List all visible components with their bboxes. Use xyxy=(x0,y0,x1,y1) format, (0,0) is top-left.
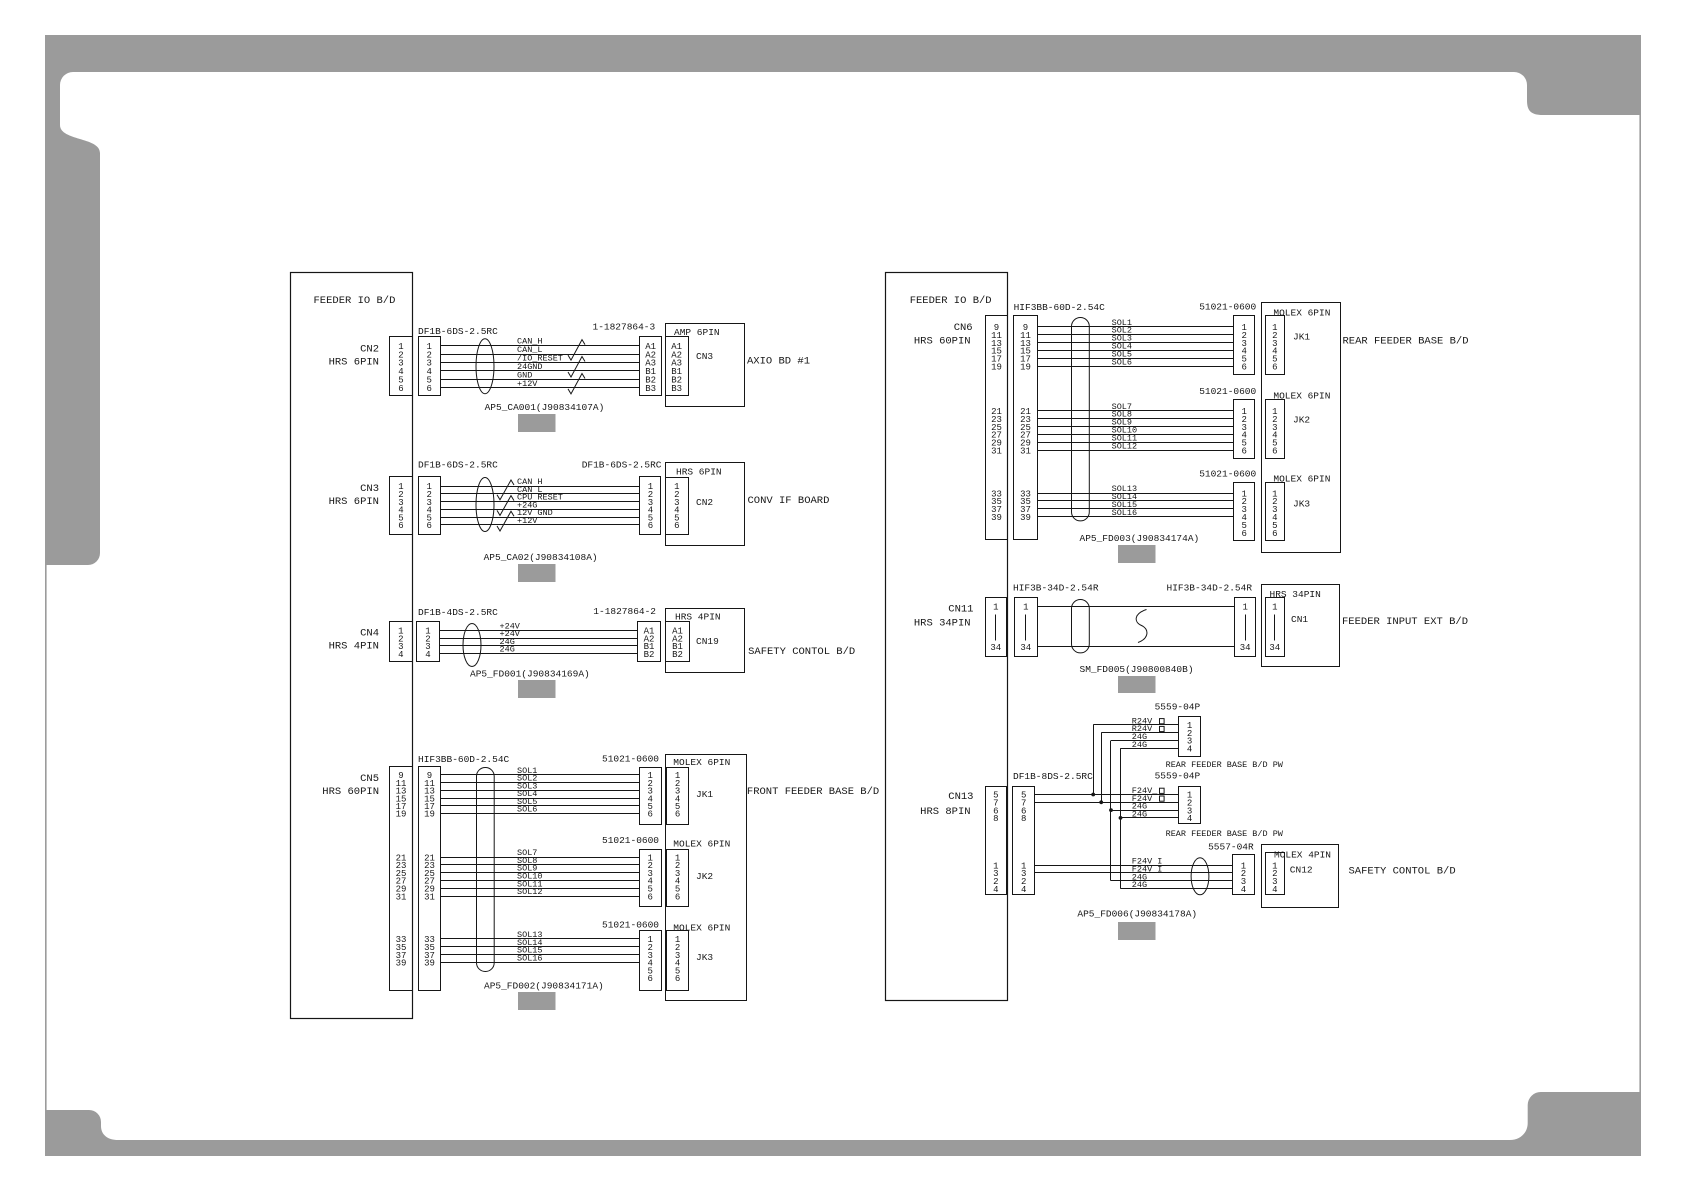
connector CN11 pin box xyxy=(986,598,1007,657)
svg-text:CN6: CN6 xyxy=(954,322,973,334)
connector 1-1827864-2 pin box xyxy=(638,622,661,662)
svg-text:MOLEX 6PIN: MOLEX 6PIN xyxy=(673,839,730,850)
connector pin box right (CN3 cable) xyxy=(640,477,661,535)
svg-text:HRS 34PIN: HRS 34PIN xyxy=(914,617,971,629)
wire 24G 4 (top) xyxy=(1121,748,1179,750)
svg-text:39: 39 xyxy=(991,513,1002,523)
svg-text:HRS 6PIN: HRS 6PIN xyxy=(676,467,722,478)
svg-text:SOL16: SOL16 xyxy=(517,953,543,963)
svg-text:6: 6 xyxy=(426,384,431,394)
connector DF1B-4DS-2.5RC pin box xyxy=(417,622,440,662)
svg-text:HRS 6PIN: HRS 6PIN xyxy=(329,496,379,508)
twisted pair mark GND/+12V xyxy=(568,374,585,394)
frame top band xyxy=(45,35,1641,72)
svg-text:B2: B2 xyxy=(644,650,655,660)
svg-text:DF1B-6DS-2.5RC: DF1B-6DS-2.5RC xyxy=(582,460,662,471)
svg-text:6: 6 xyxy=(647,892,652,902)
svg-text:31: 31 xyxy=(396,892,407,902)
connector CN1 pin box xyxy=(1266,598,1285,657)
svg-text:6: 6 xyxy=(647,810,652,820)
svg-text:AP5_FD006(J90834178A): AP5_FD006(J90834178A) xyxy=(1077,909,1197,920)
svg-text:6: 6 xyxy=(675,810,680,820)
svg-text:HIF3B-34D-2.54R: HIF3B-34D-2.54R xyxy=(1167,583,1253,594)
svg-text:REAR FEEDER BASE B/D: REAR FEEDER BASE B/D xyxy=(1343,336,1469,348)
connector 5559-04P middle pin box xyxy=(1179,787,1201,825)
svg-text:51021-0600: 51021-0600 xyxy=(1199,386,1256,397)
MOLEX 6PIN connector box JK1/JK2/JK3 (right) xyxy=(1262,303,1341,553)
HRS 34PIN connector box CN1 xyxy=(1262,585,1340,667)
twisted pair mark CAN xyxy=(568,340,585,361)
svg-text:CN19: CN19 xyxy=(696,636,719,647)
svg-text:B3: B3 xyxy=(671,384,682,394)
svg-text:6: 6 xyxy=(674,521,679,531)
svg-text:HIF3BB-60D-2.54C: HIF3BB-60D-2.54C xyxy=(418,754,510,765)
svg-text:JK2: JK2 xyxy=(696,871,713,882)
connector CN3 pin box xyxy=(390,477,413,535)
svg-text:51021-0600: 51021-0600 xyxy=(1199,302,1256,313)
gray stamp AP5_CA02 xyxy=(518,564,556,582)
cable bundle ellipse AP5_FD001 xyxy=(463,624,481,667)
svg-text:6: 6 xyxy=(675,974,680,984)
wire CN11 pin34 xyxy=(1037,646,1234,648)
frame top-right tab xyxy=(1514,72,1641,115)
connector HIF3BB-60D pin box (right) xyxy=(1014,316,1038,540)
svg-text:HRS 34PIN: HRS 34PIN xyxy=(1270,589,1321,600)
frame bottom band xyxy=(45,1140,1641,1156)
svg-text:39: 39 xyxy=(1020,513,1031,523)
svg-text:DF1B-6DS-2.5RC: DF1B-6DS-2.5RC xyxy=(418,460,498,471)
AMP 6PIN connector box CN3 xyxy=(666,324,745,407)
svg-text:6: 6 xyxy=(648,521,653,531)
svg-text:+12V: +12V xyxy=(517,379,538,389)
svg-text:SOL6: SOL6 xyxy=(517,805,537,815)
svg-text:CN4: CN4 xyxy=(360,628,379,640)
svg-text:1: 1 xyxy=(1023,602,1028,612)
svg-text:JK1: JK1 xyxy=(696,789,713,800)
svg-text:HRS 6PIN: HRS 6PIN xyxy=(329,356,379,368)
wire F24V_ pin5 to middle connector xyxy=(1034,794,1178,796)
svg-text:39: 39 xyxy=(396,959,407,969)
cable bundle capsule AP5_FD002 xyxy=(477,768,495,972)
twisted pair mark 12V GND/+12V xyxy=(497,511,514,531)
svg-text:4: 4 xyxy=(1187,745,1192,755)
svg-text:AXIO BD #1: AXIO BD #1 xyxy=(747,356,810,368)
svg-text:5559-04P: 5559-04P xyxy=(1155,702,1201,713)
svg-text:MOLEX 6PIN: MOLEX 6PIN xyxy=(673,923,730,934)
gray stamp SM_FD005 xyxy=(1118,676,1156,693)
svg-text:MOLEX 6PIN: MOLEX 6PIN xyxy=(1273,308,1330,319)
svg-text:MOLEX 6PIN: MOLEX 6PIN xyxy=(673,757,730,768)
svg-text:HIF3BB-60D-2.54C: HIF3BB-60D-2.54C xyxy=(1014,302,1106,313)
cable bundle capsule AP5_FD003 xyxy=(1072,318,1090,521)
MOLEX 4PIN connector box CN12 xyxy=(1262,845,1339,908)
cable bundle ellipse AP5_CA001 xyxy=(476,339,494,394)
svg-text:CN1: CN1 xyxy=(1291,614,1308,625)
svg-text:SOL12: SOL12 xyxy=(1112,441,1138,451)
gray stamp AP5_FD006 xyxy=(1118,922,1156,940)
svg-text:4: 4 xyxy=(993,885,998,895)
svg-text:1: 1 xyxy=(1242,602,1247,612)
gray stamp AP5_FD001 xyxy=(518,680,556,698)
svg-text:JK3: JK3 xyxy=(1293,499,1310,510)
svg-text:6: 6 xyxy=(1272,529,1277,539)
connector CN4 pin box xyxy=(390,622,413,662)
wire 24G middle 3 xyxy=(1111,810,1179,812)
connector 51021 JK2 pin box (left) xyxy=(640,850,662,907)
svg-text:FRONT FEEDER BASE B/D: FRONT FEEDER BASE B/D xyxy=(747,786,879,798)
svg-text:FEEDER INPUT EXT B/D: FEEDER INPUT EXT B/D xyxy=(1342,616,1468,628)
svg-text:FEEDER IO B/D: FEEDER IO B/D xyxy=(314,295,396,307)
junction dot F24V/R24V 1 xyxy=(1091,793,1095,797)
connector 5559-04P top pin box xyxy=(1179,717,1201,757)
wire 24G bottom 4 xyxy=(1121,888,1233,890)
twisted pair mark CPU RESET/+24G xyxy=(497,496,514,516)
svg-text:4: 4 xyxy=(1021,885,1026,895)
svg-text:19: 19 xyxy=(1020,363,1031,373)
wire F24V_ pin7 to middle connector xyxy=(1034,802,1178,804)
bus vertical 24G 4 xyxy=(1120,748,1122,888)
svg-text:B2: B2 xyxy=(672,650,683,660)
svg-text:JK2: JK2 xyxy=(1293,415,1310,426)
svg-text:34: 34 xyxy=(1269,643,1280,653)
svg-text:HRS 60PIN: HRS 60PIN xyxy=(914,336,971,348)
svg-text:HIF3B-34D-2.54R: HIF3B-34D-2.54R xyxy=(1013,583,1099,594)
wires CN3 cable xyxy=(440,487,640,525)
svg-text:SAFETY CONTOL B/D: SAFETY CONTOL B/D xyxy=(748,646,855,658)
gray stamp AP5_FD002 xyxy=(518,992,556,1010)
svg-text:1-1827864-3: 1-1827864-3 xyxy=(593,322,656,333)
svg-text:5557-04R: 5557-04R xyxy=(1208,842,1254,853)
wire F24V_I pin3 bottom xyxy=(1034,872,1232,874)
connector JK3 pin box (left) xyxy=(667,931,689,991)
svg-text:B3: B3 xyxy=(645,384,656,394)
bus vertical 24G 3 xyxy=(1110,741,1112,881)
connector CN6 pin box xyxy=(986,316,1008,540)
svg-text:6: 6 xyxy=(1241,363,1246,373)
svg-text:SM_FD005(J90800840B): SM_FD005(J90800840B) xyxy=(1080,664,1194,675)
twisted pair mark IO_RESET/24GND xyxy=(568,357,585,378)
connector JK2 pin box (left) xyxy=(667,850,689,907)
gray stamp AP5_FD003 xyxy=(1118,545,1156,563)
left FEEDER IO B/D board box xyxy=(291,273,413,1019)
connector 51021 JK3 pin box (left) xyxy=(640,931,662,991)
svg-text:34: 34 xyxy=(1240,643,1251,653)
connector HIF3B-34D pin box (right) xyxy=(1235,598,1256,657)
svg-text:51021-0600: 51021-0600 xyxy=(602,754,659,765)
svg-text:CN2: CN2 xyxy=(360,344,379,356)
svg-text:6: 6 xyxy=(426,521,431,531)
svg-text:HRS 4PIN: HRS 4PIN xyxy=(675,612,721,623)
svg-text:CONV IF BOARD: CONV IF BOARD xyxy=(748,495,830,507)
svg-text:HRS 8PIN: HRS 8PIN xyxy=(920,806,970,818)
svg-text:JK3: JK3 xyxy=(696,952,713,963)
svg-text:19: 19 xyxy=(424,810,435,820)
svg-text:AP5_CA001(J90834107A): AP5_CA001(J90834107A) xyxy=(485,402,605,413)
svg-text:CN3: CN3 xyxy=(696,351,713,362)
connector JK2 pin box (right) xyxy=(1266,400,1285,459)
svg-text:+12V: +12V xyxy=(517,516,538,526)
svg-text:CN12: CN12 xyxy=(1290,865,1313,876)
junction dot F24V/R24V 2 xyxy=(1099,800,1103,804)
frame left tab xyxy=(45,72,100,565)
svg-text:19: 19 xyxy=(396,810,407,820)
frame right thin line xyxy=(1639,115,1641,1093)
svg-text:CN11: CN11 xyxy=(948,604,973,616)
svg-text:DF1B-6DS-2.5RC: DF1B-6DS-2.5RC xyxy=(418,326,498,337)
MOLEX 6PIN connector box JK1/JK2/JK3 (left) xyxy=(666,755,747,1001)
svg-text:6: 6 xyxy=(1241,447,1246,457)
wire 24G 3 (top) xyxy=(1111,740,1179,742)
svg-text:31: 31 xyxy=(991,447,1002,457)
cable bundle ellipse AP5_FD006 xyxy=(1191,858,1209,895)
svg-text:4: 4 xyxy=(1241,885,1246,895)
svg-text:SOL6: SOL6 xyxy=(1112,357,1132,367)
connector DF1B-6DS-2.5RC pin box xyxy=(419,337,441,396)
wire R24V_ 1 (top) xyxy=(1093,724,1179,726)
svg-text:5559-04P: 5559-04P xyxy=(1155,771,1201,782)
svg-text:4: 4 xyxy=(398,650,403,660)
junction dot 24G 3 xyxy=(1109,808,1113,812)
connector DF1B-6DS-2.5RC pin box 2 xyxy=(419,477,441,535)
svg-text:24G: 24G xyxy=(1132,880,1147,890)
svg-text:JK1: JK1 xyxy=(1293,332,1310,343)
svg-text:6: 6 xyxy=(675,892,680,902)
connector 51021 JK1 pin box (left) xyxy=(640,768,662,825)
svg-text:1: 1 xyxy=(1272,602,1277,612)
wire 24G bottom 3 xyxy=(1111,880,1233,882)
svg-text:DF1B-4DS-2.5RC: DF1B-4DS-2.5RC xyxy=(418,607,498,618)
svg-text:6: 6 xyxy=(1272,447,1277,457)
connector CN2 (CONV IF) pin box xyxy=(666,478,689,535)
svg-text:REAR FEEDER BASE B/D PW: REAR FEEDER BASE B/D PW xyxy=(1166,829,1284,839)
wire 24G middle 4 xyxy=(1121,817,1179,819)
connector HIF3BB-60D pin box (left) xyxy=(419,767,441,991)
connector DF1B-8DS pin box xyxy=(1013,787,1035,895)
svg-text:34: 34 xyxy=(990,643,1001,653)
svg-text:CN13: CN13 xyxy=(948,791,973,803)
wire F24V_I pin1 bottom xyxy=(1034,865,1232,867)
svg-text:FEEDER IO B/D: FEEDER IO B/D xyxy=(910,295,992,307)
svg-text:6: 6 xyxy=(1241,529,1246,539)
svg-text:REAR FEEDER BASE B/D PW: REAR FEEDER BASE B/D PW xyxy=(1166,760,1284,770)
connector CN2 pin box xyxy=(390,337,413,396)
svg-text:MOLEX 4PIN: MOLEX 4PIN xyxy=(1274,850,1331,861)
svg-text:24G: 24G xyxy=(1132,740,1147,750)
connector CN19 pin box xyxy=(666,622,690,662)
cable break squiggle SM_FD005 xyxy=(1136,610,1147,643)
connector 51021 JK3 pin box (right) xyxy=(1234,483,1255,541)
HRS 4PIN connector box CN19 xyxy=(666,609,745,673)
svg-text:1: 1 xyxy=(993,602,998,612)
svg-text:19: 19 xyxy=(991,363,1002,373)
connector 51021 JK1 pin box (right) xyxy=(1234,316,1255,375)
svg-text:CN5: CN5 xyxy=(360,773,379,785)
connector CN5 pin box xyxy=(390,767,413,991)
svg-text:34: 34 xyxy=(1020,643,1031,653)
connector JK3 pin box (right) xyxy=(1266,483,1285,541)
connector CN13 pin box xyxy=(986,787,1007,895)
svg-text:6: 6 xyxy=(398,384,403,394)
svg-text:6: 6 xyxy=(1272,363,1277,373)
svg-text:6: 6 xyxy=(647,974,652,984)
connector JK1 pin box (right) xyxy=(1266,316,1285,375)
svg-text:AP5_FD003(J90834174A): AP5_FD003(J90834174A) xyxy=(1080,533,1200,544)
connector 51021 JK2 pin box (right) xyxy=(1234,400,1255,459)
svg-text:51021-0600: 51021-0600 xyxy=(602,835,659,846)
gray stamp AP5_CA001 xyxy=(518,414,556,432)
svg-text:31: 31 xyxy=(1020,447,1031,457)
svg-text:AP5_CA02(J90834108A): AP5_CA02(J90834108A) xyxy=(484,552,598,563)
svg-text:CN3: CN3 xyxy=(360,483,379,495)
svg-text:31: 31 xyxy=(424,892,435,902)
connector 5557-04R pin box xyxy=(1233,855,1255,895)
svg-text:HRS 4PIN: HRS 4PIN xyxy=(329,641,379,653)
svg-text:24G: 24G xyxy=(500,645,515,655)
svg-text:8: 8 xyxy=(993,814,998,824)
svg-text:4: 4 xyxy=(1187,814,1192,824)
bus vertical R24V 1 xyxy=(1093,725,1095,795)
wires CN4 cable xyxy=(439,631,637,654)
svg-text:SOL12: SOL12 xyxy=(517,887,543,897)
svg-text:8: 8 xyxy=(1021,814,1026,824)
svg-text:SOL16: SOL16 xyxy=(1112,508,1138,518)
connector JK1 pin box (left) xyxy=(667,768,689,825)
svg-text:AP5_FD002(J90834171A): AP5_FD002(J90834171A) xyxy=(484,981,604,992)
svg-text:4: 4 xyxy=(1272,885,1277,895)
svg-text:51021-0600: 51021-0600 xyxy=(1199,469,1256,480)
svg-text:HRS 60PIN: HRS 60PIN xyxy=(322,786,379,798)
HRS 6PIN connector box CN2 (CONV IF) xyxy=(666,463,745,546)
connector CN12 pin box xyxy=(1266,853,1285,895)
svg-text:4: 4 xyxy=(425,650,430,660)
svg-text:51021-0600: 51021-0600 xyxy=(602,920,659,931)
cable bundle capsule SM_FD005 xyxy=(1072,600,1090,653)
connector CN3 (AMP) pin box xyxy=(666,337,689,396)
wires CN5 cable xyxy=(441,775,640,963)
svg-text:DF1B-8DS-2.5RC: DF1B-8DS-2.5RC xyxy=(1013,771,1093,782)
twisted pair mark CAN H/L xyxy=(497,480,514,500)
svg-text:39: 39 xyxy=(424,959,435,969)
svg-text:SAFETY CONTOL B/D: SAFETY CONTOL B/D xyxy=(1349,866,1456,878)
bus vertical R24V 2 xyxy=(1101,733,1103,803)
frame bottom-left tab xyxy=(45,1110,118,1140)
frame left thin line xyxy=(45,565,47,1111)
svg-text:AP5_FD001(J90834169A): AP5_FD001(J90834169A) xyxy=(470,669,590,680)
wire R24V_ 2 (top) xyxy=(1101,732,1179,734)
svg-text:MOLEX 6PIN: MOLEX 6PIN xyxy=(1273,474,1330,485)
cable bundle ellipse AP5_CA02 xyxy=(476,478,494,532)
svg-text:CN2: CN2 xyxy=(696,497,713,508)
wires CN6 cable xyxy=(1037,327,1233,517)
wires CN2 cable xyxy=(440,346,639,388)
connector HIF3B-34D pin box (left) xyxy=(1015,598,1038,657)
wire CN11 pin1 xyxy=(1037,606,1234,608)
svg-text:6: 6 xyxy=(398,521,403,531)
connector 1-1827864-3 pin box xyxy=(640,337,662,396)
frame bottom-right tab xyxy=(1510,1092,1641,1140)
right FEEDER IO B/D board box xyxy=(886,273,1008,1001)
junction dot 24G 4 xyxy=(1119,816,1123,820)
svg-text:1-1827864-2: 1-1827864-2 xyxy=(593,606,656,617)
